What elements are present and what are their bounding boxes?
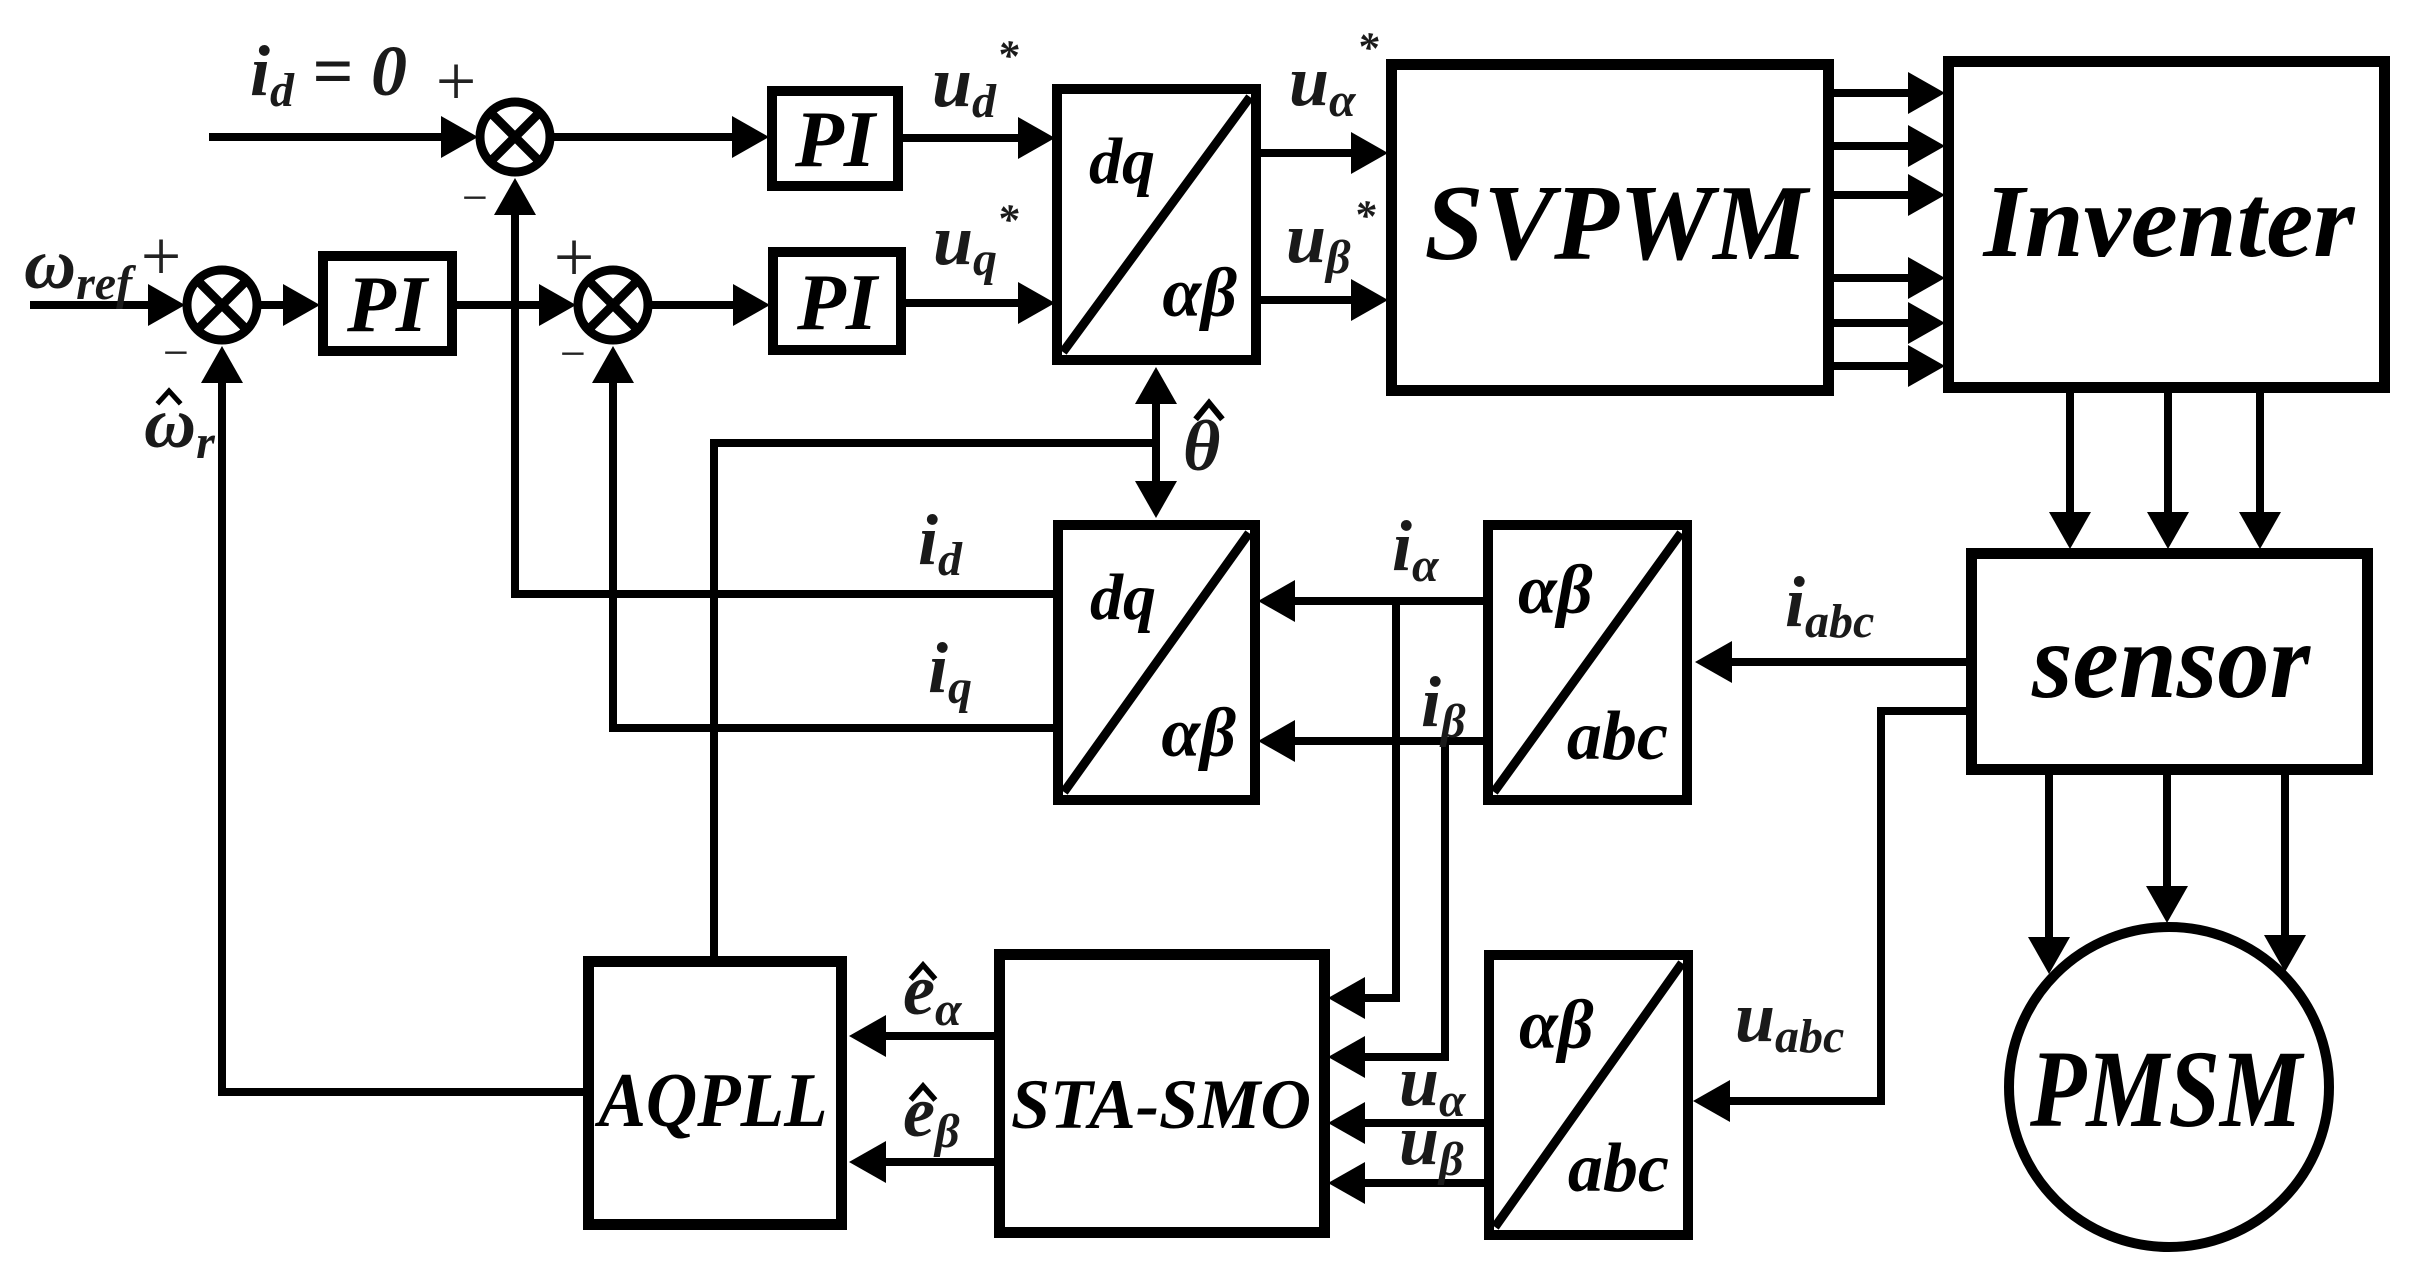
wire SVPWM gate signal 5 to Inventer	[1834, 302, 1945, 344]
wire SVPWM gate signal 2 to Inventer	[1834, 125, 1945, 167]
wire Inventer phase b down to sensor	[2147, 391, 2189, 549]
wire i_alpha ab1 to dq2	[1258, 580, 1483, 622]
wire Inventer phase c down to sensor	[2239, 391, 2281, 549]
svg-text:−: −	[163, 327, 189, 378]
block PI1 speed controller	[323, 256, 452, 351]
wire SVPWM gate signal 1 to Inventer	[1834, 72, 1945, 114]
block PI3 q-axis current controller	[773, 252, 901, 350]
label u_b*	[1286, 193, 1376, 284]
svg-text:dq: dq	[1090, 561, 1156, 634]
svg-text:*: *	[997, 33, 1019, 80]
svg-text:abc: abc	[1568, 1130, 1669, 1207]
svg-text:αβ: αβ	[1518, 552, 1593, 629]
wire SVPWM gate signal 4 to Inventer	[1834, 257, 1945, 299]
wire e_alpha STA-SMO to AQPLL	[849, 1015, 994, 1057]
summing junction J2 q-axis current error	[578, 270, 648, 340]
wire J3 output to PI2	[551, 116, 769, 158]
block PI2 d-axis current controller	[772, 91, 898, 186]
svg-text:dq: dq	[1089, 125, 1155, 198]
block sensor current voltage sensor	[1972, 554, 2368, 770]
svg-text:abc: abc	[1567, 698, 1668, 775]
svg-text:−: −	[462, 172, 488, 223]
block dq2 Park transform dq to alphabeta	[1058, 525, 1255, 800]
wire i_abc sensor to ab1	[1695, 641, 1968, 683]
wire e_beta STA-SMO to AQPLL	[849, 1141, 994, 1183]
wire i_beta ab1 to dq2	[1258, 720, 1483, 762]
wire Inventer phase a down to sensor	[2049, 391, 2091, 549]
label e_beta_hat	[903, 1072, 960, 1158]
svg-text:*: *	[997, 197, 1019, 244]
svg-text:+: +	[436, 41, 477, 121]
wire u_abc sensor to ab2	[1693, 711, 1968, 1122]
label u_a*	[1289, 25, 1379, 127]
wire SVPWM gate signal 6 to Inventer	[1834, 345, 1945, 387]
wire i_beta branch down to STA-SMO	[1328, 741, 1445, 1078]
block STA-SMO observer	[1000, 955, 1325, 1233]
svg-text:PMSM: PMSM	[2029, 1028, 2305, 1150]
wire sensor phase c down to PMSM	[2264, 773, 2306, 972]
summing junction J1 speed error	[187, 270, 257, 340]
label omega_r_hat	[144, 383, 216, 469]
block SVPWM modulator	[1392, 65, 1829, 391]
motor PMSM	[2009, 927, 2329, 1247]
svg-text:STA-SMO: STA-SMO	[1011, 1066, 1311, 1144]
wire sensor phase b down to PMSM	[2146, 773, 2188, 923]
wire PI1 output to J2	[457, 284, 576, 326]
svg-text:sensor: sensor	[2031, 602, 2311, 721]
svg-text:*: *	[1354, 193, 1376, 240]
wire theta_hat between dq1 and dq2	[1135, 367, 1177, 518]
svg-text:SVPWM: SVPWM	[1425, 164, 1812, 283]
svg-text:PI: PI	[794, 96, 878, 184]
wire i_q feedback dq2 to J2	[592, 346, 1053, 728]
wire sensor phase a down to PMSM	[2028, 773, 2070, 974]
label u_d*	[932, 33, 1019, 128]
svg-text:PI: PI	[796, 259, 880, 347]
block ab2 Clarke transform alphabeta to abc voltage	[1489, 955, 1688, 1235]
svg-text:θ: θ	[1183, 406, 1220, 486]
block ab1 Clarke transform alphabeta to abc	[1488, 525, 1687, 800]
svg-text:AQPLL: AQPLL	[595, 1057, 828, 1143]
wire omega_ref input to J1	[30, 284, 185, 326]
wire SVPWM gate signal 3 to Inventer	[1834, 174, 1945, 216]
wire u_alpha ab2 to STA-SMO	[1328, 1102, 1484, 1144]
wire u_d* PI2 to dq1	[903, 117, 1055, 159]
wire u_q* PI3 to dq1	[906, 282, 1055, 324]
label e_alpha_hat	[903, 950, 963, 1036]
wire i_alpha branch down to STA-SMO	[1328, 601, 1396, 1019]
wire theta_hat branch to AQPLL	[714, 443, 1156, 956]
svg-text:αβ: αβ	[1162, 255, 1237, 332]
wire omega_r_hat AQPLL to J1	[201, 346, 583, 1092]
wire u_a* dq1 to SVPWM	[1261, 132, 1388, 174]
wire i_d feedback dq2 to J3	[494, 178, 1053, 594]
svg-text:αβ: αβ	[1519, 987, 1594, 1064]
wire J2 output to PI3	[650, 284, 770, 326]
svg-text:+: +	[141, 216, 182, 296]
wire u_b* dq1 to SVPWM	[1261, 279, 1388, 321]
label u_q*	[933, 197, 1019, 286]
svg-text:*: *	[1357, 25, 1379, 72]
wire u_beta ab2 to STA-SMO	[1328, 1162, 1484, 1204]
block AQPLL phase locked loop	[589, 962, 842, 1225]
wire i_d=0 setpoint into J3	[209, 116, 478, 158]
svg-text:αβ: αβ	[1161, 695, 1236, 772]
svg-text:Inventer: Inventer	[1981, 164, 2356, 279]
block Inventer power inverter	[1949, 62, 2385, 388]
block dq1 inverse Park transform dq to alphabeta	[1057, 89, 1256, 360]
label theta_hat	[1183, 403, 1221, 486]
svg-text:−: −	[560, 328, 586, 379]
wire J1 output to PI1	[259, 284, 320, 326]
svg-text:+: +	[554, 217, 595, 297]
svg-text:PI: PI	[346, 261, 430, 349]
summing junction J3 d-axis current error	[480, 102, 550, 172]
